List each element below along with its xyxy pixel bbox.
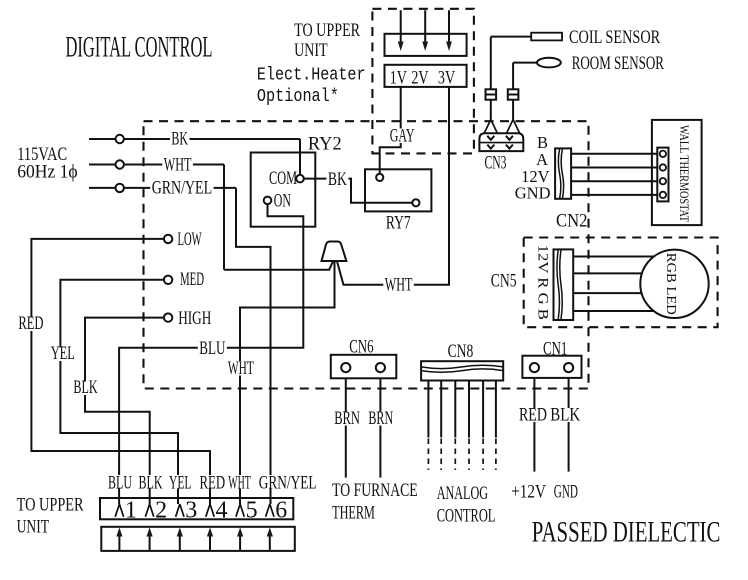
svg-text:RED: RED bbox=[519, 406, 547, 426]
svg-text:TO FURNACE: TO FURNACE bbox=[332, 480, 418, 501]
svg-text:THERM: THERM bbox=[332, 503, 375, 524]
svg-text:GND: GND bbox=[515, 184, 551, 203]
svg-text:2: 2 bbox=[155, 498, 167, 524]
svg-text:COIL SENSOR: COIL SENSOR bbox=[569, 27, 660, 48]
svg-text:CONTROL: CONTROL bbox=[437, 506, 496, 527]
svg-text:WHT: WHT bbox=[385, 275, 413, 296]
svg-text:BLU: BLU bbox=[108, 473, 132, 494]
svg-text:2V: 2V bbox=[411, 68, 428, 89]
svg-text:Elect.Heater: Elect.Heater bbox=[257, 66, 366, 86]
svg-text:RY7: RY7 bbox=[386, 213, 411, 234]
svg-text:BLK: BLK bbox=[73, 377, 97, 398]
svg-text:12V R G B: 12V R G B bbox=[535, 245, 551, 320]
svg-text:RED: RED bbox=[200, 473, 226, 494]
svg-text:BK: BK bbox=[171, 129, 188, 150]
svg-text:CN5: CN5 bbox=[491, 270, 517, 291]
svg-text:YEL: YEL bbox=[169, 473, 191, 494]
svg-text:GRN/YEL: GRN/YEL bbox=[152, 178, 212, 199]
svg-text:CN1: CN1 bbox=[543, 339, 567, 360]
svg-text:3V: 3V bbox=[438, 68, 455, 89]
svg-text:TO UPPER: TO UPPER bbox=[294, 21, 361, 41]
svg-text:YEL: YEL bbox=[51, 343, 75, 364]
svg-text:GND: GND bbox=[554, 482, 578, 503]
svg-text:CN3: CN3 bbox=[485, 153, 507, 174]
svg-text:5: 5 bbox=[246, 498, 258, 524]
svg-text:RGB LED: RGB LED bbox=[663, 253, 678, 315]
svg-text:Optional*: Optional* bbox=[257, 87, 339, 107]
svg-text:TO UPPER: TO UPPER bbox=[17, 496, 85, 516]
svg-text:WHT: WHT bbox=[228, 473, 251, 494]
svg-text:GRN/YEL: GRN/YEL bbox=[259, 473, 317, 494]
svg-text:+12V: +12V bbox=[511, 482, 546, 503]
svg-text:LOW: LOW bbox=[178, 229, 202, 250]
svg-text:CN8: CN8 bbox=[448, 341, 474, 362]
svg-text:ANALOG: ANALOG bbox=[437, 483, 488, 504]
svg-text:BLU: BLU bbox=[199, 338, 225, 359]
svg-text:BRN: BRN bbox=[334, 409, 360, 429]
svg-text:DIGITAL CONTROL: DIGITAL CONTROL bbox=[66, 31, 213, 64]
svg-text:BK: BK bbox=[328, 169, 347, 190]
svg-text:UNIT: UNIT bbox=[294, 41, 328, 61]
svg-text:1V: 1V bbox=[390, 68, 407, 89]
svg-text:CN2: CN2 bbox=[556, 211, 587, 232]
svg-text:ROOM SENSOR: ROOM SENSOR bbox=[572, 53, 665, 74]
svg-text:BLK: BLK bbox=[139, 473, 163, 494]
svg-text:60Hz 1ϕ: 60Hz 1ϕ bbox=[17, 162, 77, 183]
svg-text:ON: ON bbox=[274, 191, 291, 212]
svg-text:WHT: WHT bbox=[228, 358, 254, 379]
svg-text:COM: COM bbox=[269, 168, 297, 189]
svg-text:3: 3 bbox=[185, 498, 197, 524]
svg-text:HIGH: HIGH bbox=[178, 308, 211, 329]
svg-text:6: 6 bbox=[275, 498, 287, 524]
svg-text:MED: MED bbox=[180, 269, 204, 290]
svg-text:UNIT: UNIT bbox=[17, 518, 50, 538]
svg-text:WALL THERMOSTAT: WALL THERMOSTAT bbox=[677, 125, 691, 222]
svg-text:BLK: BLK bbox=[550, 406, 580, 426]
svg-text:RED: RED bbox=[18, 313, 43, 334]
svg-text:PASSED DIELECTIC: PASSED DIELECTIC bbox=[532, 516, 721, 549]
svg-text:WHT: WHT bbox=[164, 155, 192, 176]
svg-text:GAY: GAY bbox=[390, 126, 415, 147]
svg-text:BRN: BRN bbox=[368, 409, 393, 429]
svg-text:4: 4 bbox=[216, 498, 228, 524]
svg-text:CN6: CN6 bbox=[349, 337, 373, 358]
svg-text:1: 1 bbox=[125, 498, 137, 524]
svg-text:RY2: RY2 bbox=[308, 134, 342, 155]
